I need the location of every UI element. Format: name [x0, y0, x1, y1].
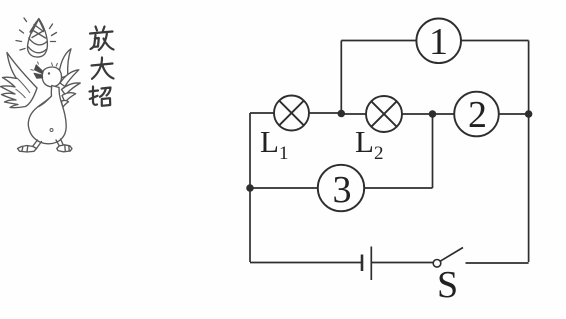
node A junction dot [338, 110, 346, 118]
body with neck [28, 86, 66, 144]
bamboo shoot outline [28, 19, 48, 58]
label L1 [260, 124, 288, 165]
lamp L1 [274, 96, 309, 131]
head [42, 67, 61, 87]
node: meter2/right-rail junction dot [525, 110, 533, 118]
wire: node A to L2 [341, 113, 366, 115]
wire: top branch right [461, 40, 529, 42]
wire: top branch left [341, 40, 416, 42]
chest line [39, 97, 51, 107]
sparkle dashes [16, 18, 57, 50]
wire: node A riser to top branch [340, 41, 342, 114]
battery [362, 247, 371, 281]
char ZHAO 招 [90, 87, 111, 106]
legs and feet [33, 140, 42, 149]
char DA 大 [92, 58, 114, 79]
ammeter 2 [454, 92, 499, 137]
head tuft [52, 63, 58, 67]
beak open [31, 62, 44, 79]
ammeter 1 [416, 19, 461, 64]
node: left-rail/meter3 junction dot [246, 184, 254, 192]
wire: meter 2 to right rail [499, 113, 529, 115]
node B junction dot [429, 110, 437, 118]
wire: right rail [528, 41, 530, 263]
left wing [1, 53, 38, 108]
wire: left rail to meter 3 [250, 187, 318, 189]
meter digit 3 [319, 171, 365, 209]
right wing [59, 49, 72, 78]
wire: battery to switch [371, 262, 433, 264]
wire: node B to meter 2 [433, 113, 455, 115]
label L2 [355, 124, 383, 165]
eye and belly dot [48, 72, 50, 74]
bamboo wrap lines [28, 38, 47, 53]
wing inner lines [16, 78, 31, 98]
wire: left rail to L1 [250, 112, 274, 114]
wire: L1 to node A [309, 112, 341, 114]
wire: L2 to node B [402, 113, 433, 115]
wire: node B drop to meter-3 branch [432, 114, 434, 188]
char FANG 放 [90, 27, 114, 51]
wire: bottom left to battery [250, 262, 362, 264]
switch S [433, 248, 463, 268]
meter digit 2 [455, 96, 500, 134]
meter digit 1 [416, 23, 461, 61]
wire: switch to right rail [466, 262, 529, 264]
bamboo shoot scale hatching [30, 19, 46, 38]
wire: meter 3 to node B drop [364, 187, 432, 189]
label S [437, 263, 458, 307]
lamp L2 [366, 96, 402, 132]
ammeter 3 [318, 165, 364, 211]
wire: left rail [249, 113, 251, 262]
